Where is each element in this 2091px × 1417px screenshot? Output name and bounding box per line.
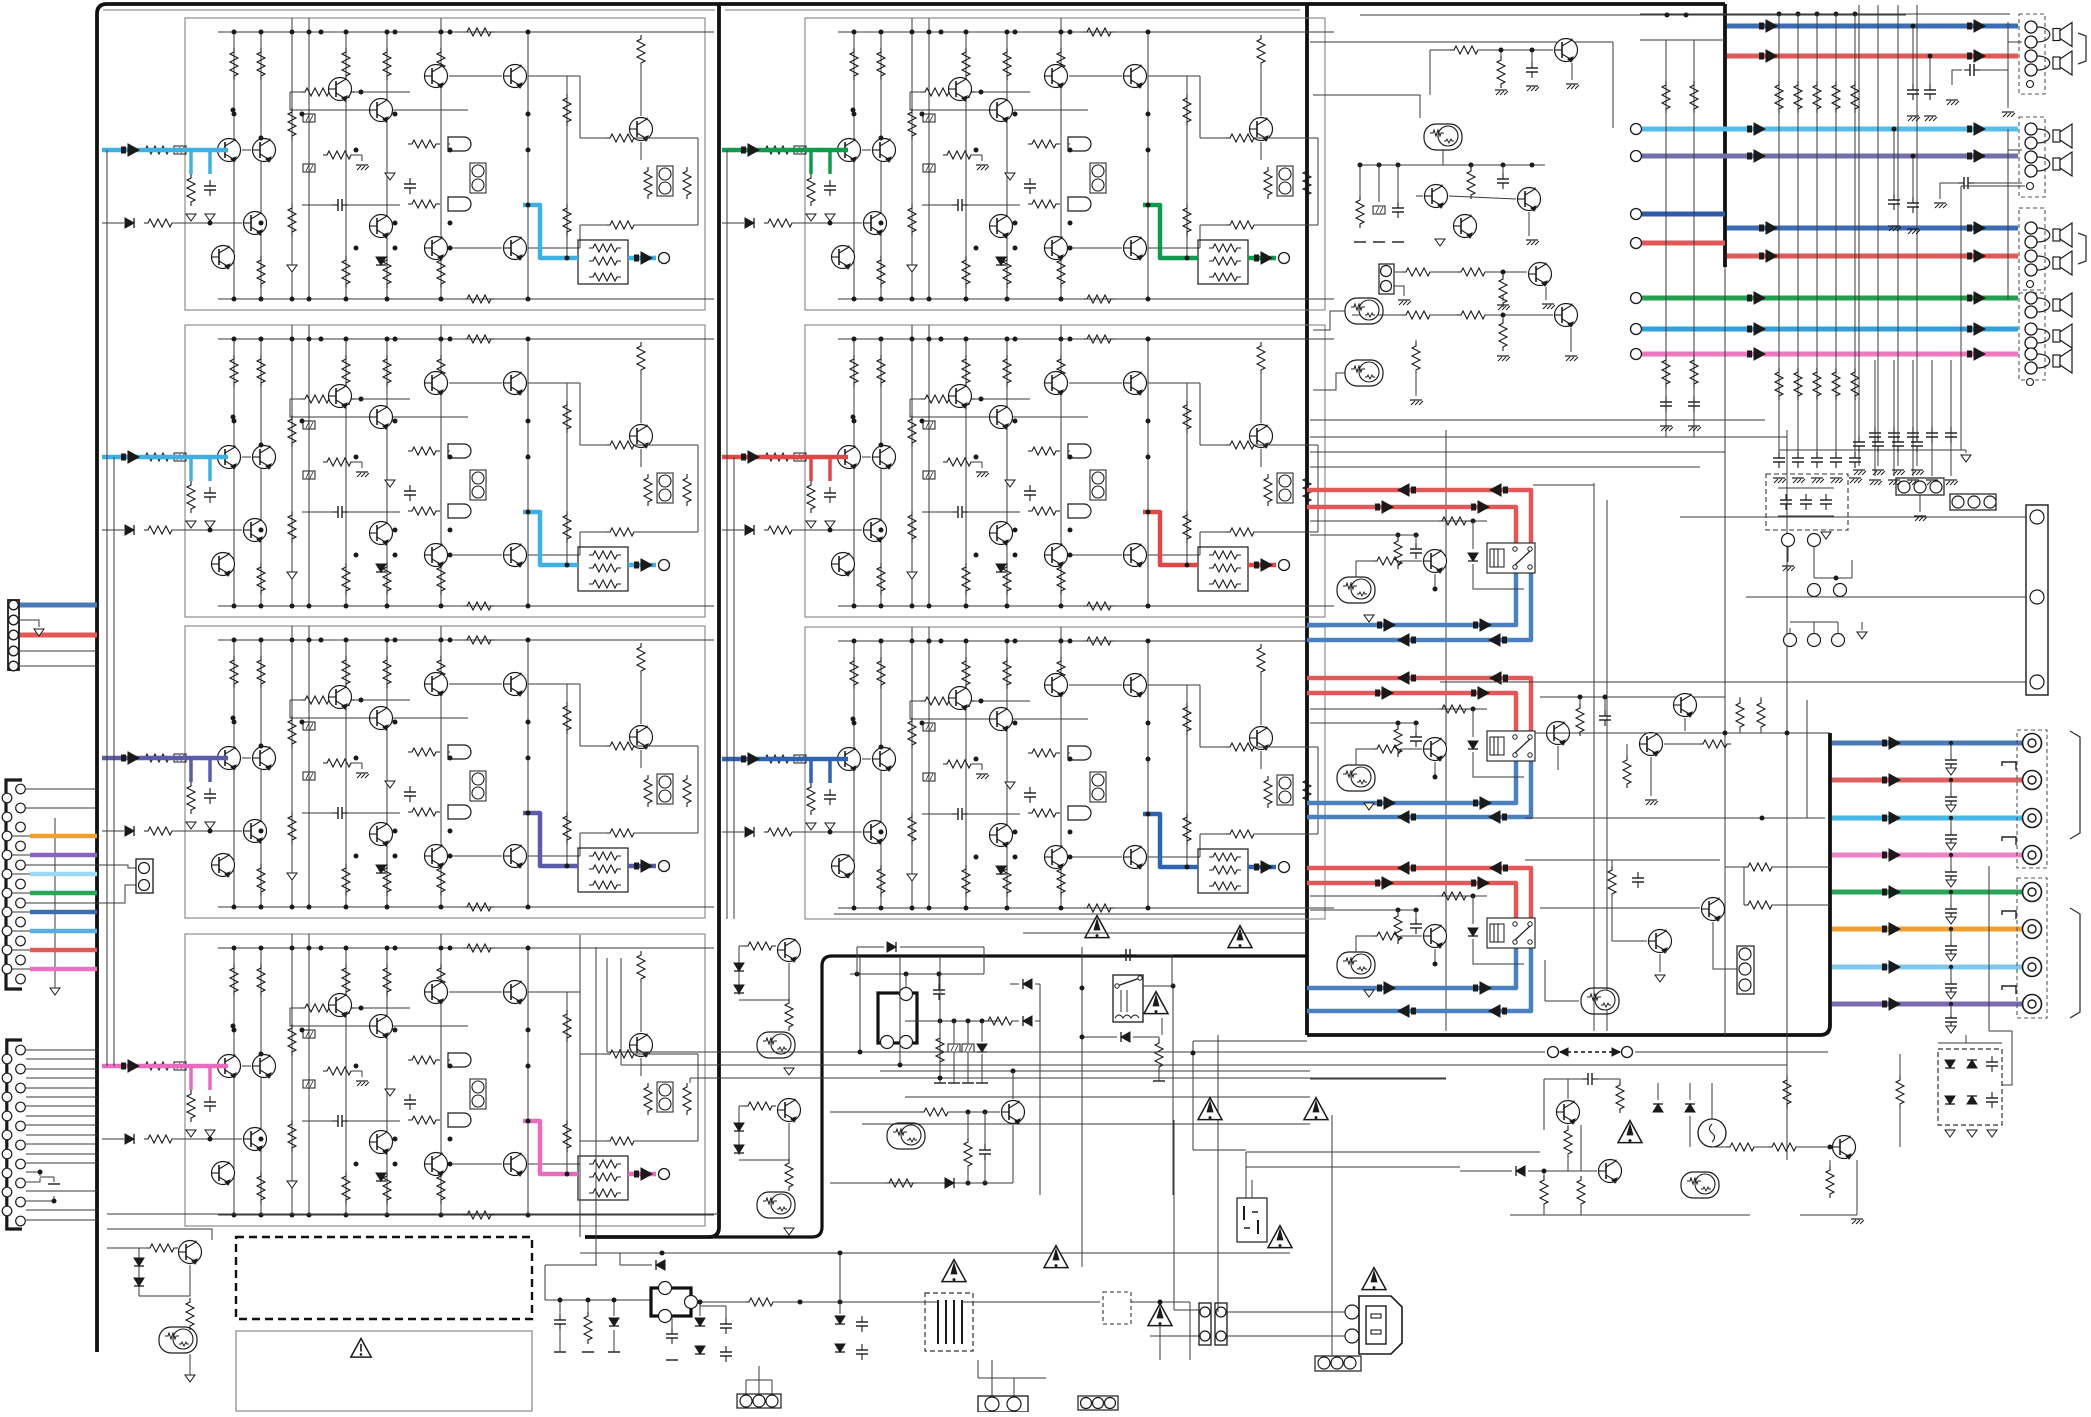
output line 3 cyan [1832, 816, 2022, 821]
output network resistor 2 [1209, 257, 1241, 265]
wire right link top [580, 137, 606, 139]
relay RY2 wire base [1401, 748, 1422, 750]
wire feedback lower [290, 1008, 468, 1026]
wire vertical rail V2 [260, 32, 262, 299]
protection cell 2 wire [739, 1105, 744, 1107]
wire m3 bottom rail ext [834, 913, 1307, 915]
resistor chain 2a [1402, 311, 1434, 319]
relay RY3 capacitor [1415, 918, 1417, 924]
connector CN-C pin a5 [2, 1130, 12, 1140]
rectifier cap 2 [1991, 1092, 1993, 1098]
wire top zobel 3 [1897, 5, 1899, 437]
resistor reg v2 [1467, 167, 1475, 199]
protection cell 2 resistor v [785, 1159, 793, 1191]
wire vertical rail V8 [527, 32, 529, 299]
output terminal [1279, 560, 1290, 571]
wire feedback [290, 398, 301, 400]
resistor bottom bank [962, 563, 970, 595]
resistor top bank [342, 656, 350, 688]
diode aux input [745, 218, 754, 228]
ground rect 1 [1945, 1130, 1955, 1137]
resistor on bottom rail [463, 903, 495, 911]
capacitor mid [409, 178, 411, 184]
diode mid [376, 1173, 386, 1181]
wire vertical rail V3 [291, 325, 293, 606]
resistor bottom bank [437, 256, 445, 288]
ground CN-C bar [48, 1183, 60, 1185]
wire Q11 emitter [1260, 449, 1262, 467]
output network resistor 2 [1209, 866, 1241, 874]
transistor prot low B [1649, 930, 1672, 953]
transistor input pair B [873, 446, 896, 469]
transistor input pair B [253, 1055, 276, 1078]
ferrite bead input [794, 755, 806, 763]
wire CN-B colored stub y893 [30, 891, 97, 896]
resistor top bank [230, 656, 238, 688]
transistor Q9 [425, 845, 448, 868]
transistor Q10 [504, 237, 527, 260]
capacitor relay [1120, 954, 1126, 956]
transistor chain 1 [1529, 263, 1552, 286]
protection cell 2 diode 1 [734, 1123, 744, 1131]
wire vertical rail V1 [853, 339, 855, 606]
bracket output B [2070, 908, 2080, 1018]
connector CN-C pin b8 [16, 1178, 26, 1188]
connector CN-B pin b7 [16, 898, 26, 908]
resistor pre-drive upper [1028, 749, 1060, 757]
wire bottom rail [218, 1214, 714, 1216]
wire vertical rail V2 [260, 339, 262, 606]
wire corner link [1940, 182, 1958, 184]
wire right column [1317, 445, 1319, 532]
resistor output lower [1183, 511, 1191, 543]
wire low rail left ext 1 [607, 1051, 1310, 1053]
ground zobel column 5 [1945, 479, 1957, 481]
wire CN-B pin lead y836 [12, 835, 30, 837]
ground output 1 [1946, 768, 1956, 775]
terminal rear-left - [1631, 151, 1642, 162]
wire power rail B [107, 1213, 719, 1215]
ground output 8 [1946, 1026, 1956, 1033]
wire feedback lower [910, 701, 1088, 719]
resistor pre-drive upper [1028, 140, 1060, 148]
resistor top bank [257, 964, 265, 996]
ferrite reg [1373, 206, 1385, 214]
connector CN-C pin b9 [16, 1197, 26, 1207]
drive element lower [1068, 197, 1091, 211]
wire Q4-Q5 [449, 683, 502, 685]
connector CN-B pin a2 [2, 812, 12, 822]
wire Q11 emitter [640, 142, 642, 160]
bracket group A [2078, 33, 2086, 64]
wire fb left [1313, 95, 1420, 118]
resistor heavy link 2 [1744, 901, 1776, 909]
transistor Q9 [1045, 846, 1068, 869]
resistor Q11 collector [637, 35, 645, 67]
capacitor zobel column 5 [1950, 427, 1952, 433]
ground darl B v [1410, 399, 1422, 401]
ground V3 [287, 572, 297, 579]
resistor bottom bank [257, 563, 265, 595]
output line 3 cyan terminal [2023, 809, 2042, 828]
protection cell 1 darlington [757, 1032, 795, 1058]
terminal rear-left + [1631, 124, 1642, 135]
wire bottom-left link [139, 1265, 190, 1296]
capacitor coupling [952, 813, 958, 815]
wire zobel column 4 [1931, 360, 1933, 462]
signal path stub A (M2 rear right) [809, 457, 813, 481]
signal path output (L1 front left) [523, 205, 578, 258]
ferrite V4 lower [923, 773, 935, 781]
speaker terminal group D box [2019, 293, 2045, 380]
output line 5 green [1832, 890, 2022, 895]
wire right link bottom [1200, 531, 1226, 533]
capacitor hang B2 [1912, 156, 1914, 199]
connector CN-B pin a10 [2, 964, 12, 974]
resistor pre-drive upper [408, 1056, 440, 1064]
ferrite bead input [174, 1062, 186, 1070]
transistor Q11 right [630, 425, 653, 448]
resistor right bottom [606, 221, 638, 229]
bias pair left [470, 771, 486, 801]
wire mid long 1 [579, 935, 581, 1237]
wire speaker column L1 [1665, 40, 1667, 437]
bias pair left [1090, 163, 1106, 193]
wire zobel column 2 [1893, 360, 1895, 462]
bracket group C [2078, 233, 2086, 264]
ground prot [1645, 799, 1657, 801]
connector CN-C pin a8 [2, 1187, 12, 1197]
wire mid-low left [830, 1182, 885, 1184]
speaker coil D 3 [2037, 354, 2050, 368]
output line 7 lightblue arrow [1882, 964, 1887, 971]
wire input pair link [242, 1065, 251, 1067]
transistor Q3 [990, 99, 1013, 122]
resistor heavy link 1 [1744, 863, 1776, 871]
wire conn3p right stem [1331, 1300, 1333, 1356]
connector CN-B pin b2 [16, 803, 26, 813]
resistor output upper [1183, 94, 1191, 126]
wire right column [697, 445, 699, 532]
relay RY2 sense wire [1310, 722, 1419, 724]
terminal sub [1631, 349, 1642, 360]
relay RY3 drive resistor [1438, 892, 1470, 900]
bias pair right [657, 166, 673, 196]
transistor Q11 right [630, 1034, 653, 1057]
signal path stub A (L3 center) [189, 758, 193, 782]
resistor top bank [1003, 48, 1011, 80]
speaker line sub arrow 1 [1747, 351, 1752, 358]
connector CN-B pin b9 [16, 936, 26, 946]
relay RY3 ground [1364, 990, 1374, 997]
wire pwr E [1856, 1160, 1858, 1215]
ic block lower [651, 1288, 691, 1316]
ground output 7 [1946, 992, 1956, 999]
transistor Q6 [244, 820, 267, 843]
speaker line rear-left - [1642, 154, 2018, 159]
speaker line front-left - [1727, 54, 2018, 59]
resistor aux input [764, 526, 796, 534]
transistor Q6 [244, 212, 267, 235]
protection cell 2 diode 2 [734, 1145, 744, 1153]
capacitor speaker column 5 [1854, 452, 1856, 458]
resistor top bank [877, 355, 885, 387]
capacitor power mid [671, 1328, 673, 1334]
drive element upper [1068, 444, 1091, 458]
connector CN-C pin a7 [2, 1168, 12, 1178]
wire low rail v1 [606, 958, 608, 1052]
ground chain 1 [1542, 303, 1554, 305]
resistor bottom bank [342, 563, 350, 595]
capacitor feedback [339, 398, 345, 400]
output network resistor 2 [589, 1173, 621, 1181]
signal path input (L4 subwoofer) [102, 1064, 228, 1069]
bias pair right [657, 774, 673, 804]
connector ac pair box 2 [1215, 1303, 1227, 1345]
wire prot low [1611, 894, 1613, 941]
ground mid arrow [385, 173, 395, 180]
transistor Q4 [425, 673, 448, 696]
wire bundle 2 [1310, 436, 1787, 438]
signal path stub B (L1 front left) [208, 150, 212, 174]
capacitor mid [1029, 787, 1031, 793]
speaker terminal D pin 2 [2025, 306, 2037, 318]
ground zobel column 4 [1926, 479, 1938, 481]
wire vertical rail V4 [928, 325, 930, 606]
wire feedback lower [290, 700, 468, 718]
transistor Q5 [504, 981, 527, 1004]
speaker icon D 3 [2053, 355, 2060, 367]
diode mid-low [945, 1178, 954, 1188]
ferrite V4 upper [923, 723, 935, 731]
resistor speaker column top 1 [1775, 81, 1783, 113]
transistor input pair A [218, 1055, 241, 1078]
wire vertical rail V5 [965, 32, 967, 299]
speaker terminal C pin 4 [2025, 264, 2037, 276]
speaker terminal D pin 1 [2025, 292, 2037, 304]
dashed box small [1103, 1292, 1131, 1324]
wire speaker column 3 [1816, 14, 1818, 450]
transistor Q5 [1124, 65, 1147, 88]
wire CN-B colored stub y931 [30, 929, 97, 934]
resistor top bank [437, 48, 445, 80]
bias pair right [1277, 166, 1293, 196]
ground input shunt A [186, 521, 196, 528]
resistor V3 lower [288, 204, 296, 236]
ground chain 2 [1497, 355, 1509, 357]
speaker terminal B pin 2 [2025, 137, 2037, 149]
darlington left B [1345, 360, 1383, 386]
wire prot low rail [1540, 907, 1700, 909]
resistor pwr F [1896, 1076, 1904, 1108]
wire vertical rail V4 [928, 627, 930, 908]
protection cell 2 wire2 [739, 1123, 789, 1160]
amplifier channel block M2 rear right frame [805, 325, 1325, 617]
protection cell 1 resistor [744, 942, 776, 950]
output line 2 red junction [1949, 778, 1953, 782]
resistor chain 2b [1457, 311, 1489, 319]
output network resistor 1 [589, 852, 621, 860]
connector CN-C pin b1 [16, 1045, 26, 1055]
resistor right bottom [606, 1137, 638, 1145]
resistor bottom bank [1003, 563, 1011, 595]
output line 7 lightblue terminal [2023, 958, 2042, 977]
relay RY1 red line 1 [1307, 490, 1531, 543]
wire output rail [566, 76, 568, 258]
relay RY1 drive resistor [1438, 517, 1470, 525]
transistor prot A [1674, 694, 1697, 717]
speaker icon B 1 [2053, 130, 2060, 142]
ground row C [1857, 632, 1867, 639]
rectifier cap 1 [1991, 1056, 1993, 1062]
diode power col [609, 1318, 619, 1326]
wire CN-C stub 7 [26, 1105, 97, 1107]
wire right column [697, 746, 699, 833]
ferrite V4 upper [303, 114, 315, 122]
connector CN-C pin b7 [16, 1159, 26, 1169]
resistor top bank [383, 656, 391, 688]
rectifier dashed box [1938, 1049, 2002, 1125]
connector CN-A pin 5 [9, 661, 19, 671]
wire right column [697, 138, 699, 225]
resistor ic col 3 [962, 1044, 974, 1052]
ground pair A [1782, 565, 1794, 567]
wire low rail 3 [1310, 1078, 1446, 1080]
capacitor input shunt [209, 1096, 211, 1102]
resistor bottom-left [146, 1244, 178, 1252]
connector CN-C pin b10 [16, 1216, 26, 1226]
wire feedback lower [910, 92, 1088, 110]
resistor feedback [921, 88, 953, 96]
ground V3 [907, 265, 917, 272]
transistor Q2 [949, 385, 972, 408]
darlington bottom-left [159, 1327, 197, 1353]
transistor prot B [1547, 722, 1570, 745]
speaker coil A 1 [2037, 27, 2050, 42]
signal output arrow [1254, 864, 1259, 871]
wire top zobel 2 [1877, 5, 1879, 437]
resistor V3 lower [288, 812, 296, 844]
wire zobel column 1 [1874, 360, 1876, 462]
resistor right top [1226, 441, 1258, 449]
bias pair left [1090, 470, 1106, 500]
wire power link h2 [1246, 1166, 1460, 1168]
wire power link h1 [1246, 1151, 1540, 1153]
wire CN-B gray stub 2 [26, 807, 97, 809]
resistor on top rail [463, 335, 495, 343]
capacitor output 8 [1950, 1012, 1952, 1018]
signal path input (L2 rear left) [102, 455, 228, 460]
wire bias column [448, 143, 450, 145]
wire vertical rail V3 [911, 18, 913, 299]
resistor V3 upper [288, 1024, 296, 1056]
wire vertical rail V4 [308, 325, 310, 606]
diode relay [1121, 1032, 1130, 1042]
caution box [236, 1331, 532, 1411]
wire CN-C stub 14 [26, 1190, 97, 1192]
transistor input pair A [218, 446, 241, 469]
transistor cluster B [1518, 188, 1541, 211]
zener pwr 2 [1685, 1104, 1695, 1112]
wire Q4-Q5 [449, 75, 502, 77]
ground input shunt B [825, 214, 835, 221]
resistor right bottom [1226, 528, 1258, 536]
diode bridge 4 [835, 1344, 845, 1352]
speaker line rear-left - arrow 1 [1747, 153, 1752, 160]
ferrite bead input [794, 146, 806, 154]
resistor mid-low v [964, 1138, 972, 1170]
resistor bottom bank [962, 865, 970, 897]
capacitor top zobel 3 [1897, 436, 1899, 442]
diode bottom-left 1 [134, 1258, 144, 1266]
transistor Q4 [425, 65, 448, 88]
relay RY2 drive wire [1310, 708, 1487, 710]
signal output arrow [634, 562, 639, 569]
connector opto 2p [1379, 264, 1394, 294]
capacitor pwr A [1582, 1078, 1588, 1080]
wire ac elbow [1174, 1309, 1199, 1311]
dashed box output A [2017, 730, 2047, 868]
wire vertical rail V7 [440, 626, 442, 907]
output network resistor 3 [589, 1189, 621, 1197]
ground top zobel 3 [1892, 469, 1904, 471]
resistor top bank [257, 355, 265, 387]
capacitor speaker column 2 [1797, 452, 1799, 458]
terminal strip pin 2 [2030, 590, 2044, 604]
speaker coil D 1 [2037, 298, 2050, 312]
wire feedback [910, 398, 921, 400]
output terminal [659, 1169, 670, 1180]
wire vertical rail V2 [260, 640, 262, 907]
output network resistor 2 [589, 865, 621, 873]
wire bus left margin A [106, 150, 108, 1066]
resistor top bank [850, 657, 858, 689]
resistor right B [1303, 167, 1311, 199]
ground input shunt A [186, 1130, 196, 1137]
resistor feedback [301, 1004, 333, 1012]
wire bias column [448, 1059, 450, 1061]
signal output arrow [634, 863, 639, 870]
wire Q11 emitter [640, 449, 642, 467]
transistor Q9 [1045, 237, 1068, 260]
wire CN-A gnd elbow [18, 620, 39, 627]
ground fb 3 [1566, 83, 1578, 85]
signal output arrow [634, 1171, 639, 1178]
speaker line rear-left + [1642, 127, 2018, 132]
transistor Q10 [1124, 237, 1147, 260]
wire bottom rail [218, 298, 714, 300]
wire chain 1 [1430, 271, 1457, 273]
amplifier channel block M3 surround frame [805, 627, 1325, 919]
relay RY3 base resistor [1373, 932, 1405, 940]
wire vertical rail V5 [345, 339, 347, 606]
capacitor speaker column L2 [1693, 396, 1695, 402]
wire vertical rail V7 [1060, 325, 1062, 606]
capacitor group A [1964, 69, 1970, 71]
connector mini 2p [136, 859, 153, 893]
diode bottom-left 2 [134, 1278, 144, 1286]
speaker coil C 1 [2037, 228, 2050, 242]
speaker line front-left + [1727, 24, 2018, 29]
wire output rail [1186, 383, 1188, 565]
relay RY1 diode [1468, 553, 1478, 561]
wire prot rail [1535, 732, 1830, 734]
resistor pwr B [1564, 1126, 1572, 1158]
transistor Q8 [990, 824, 1013, 847]
wire CN-C stub 6 [26, 1096, 97, 1098]
resistor top bank [877, 48, 885, 80]
resistor right A [644, 474, 652, 506]
